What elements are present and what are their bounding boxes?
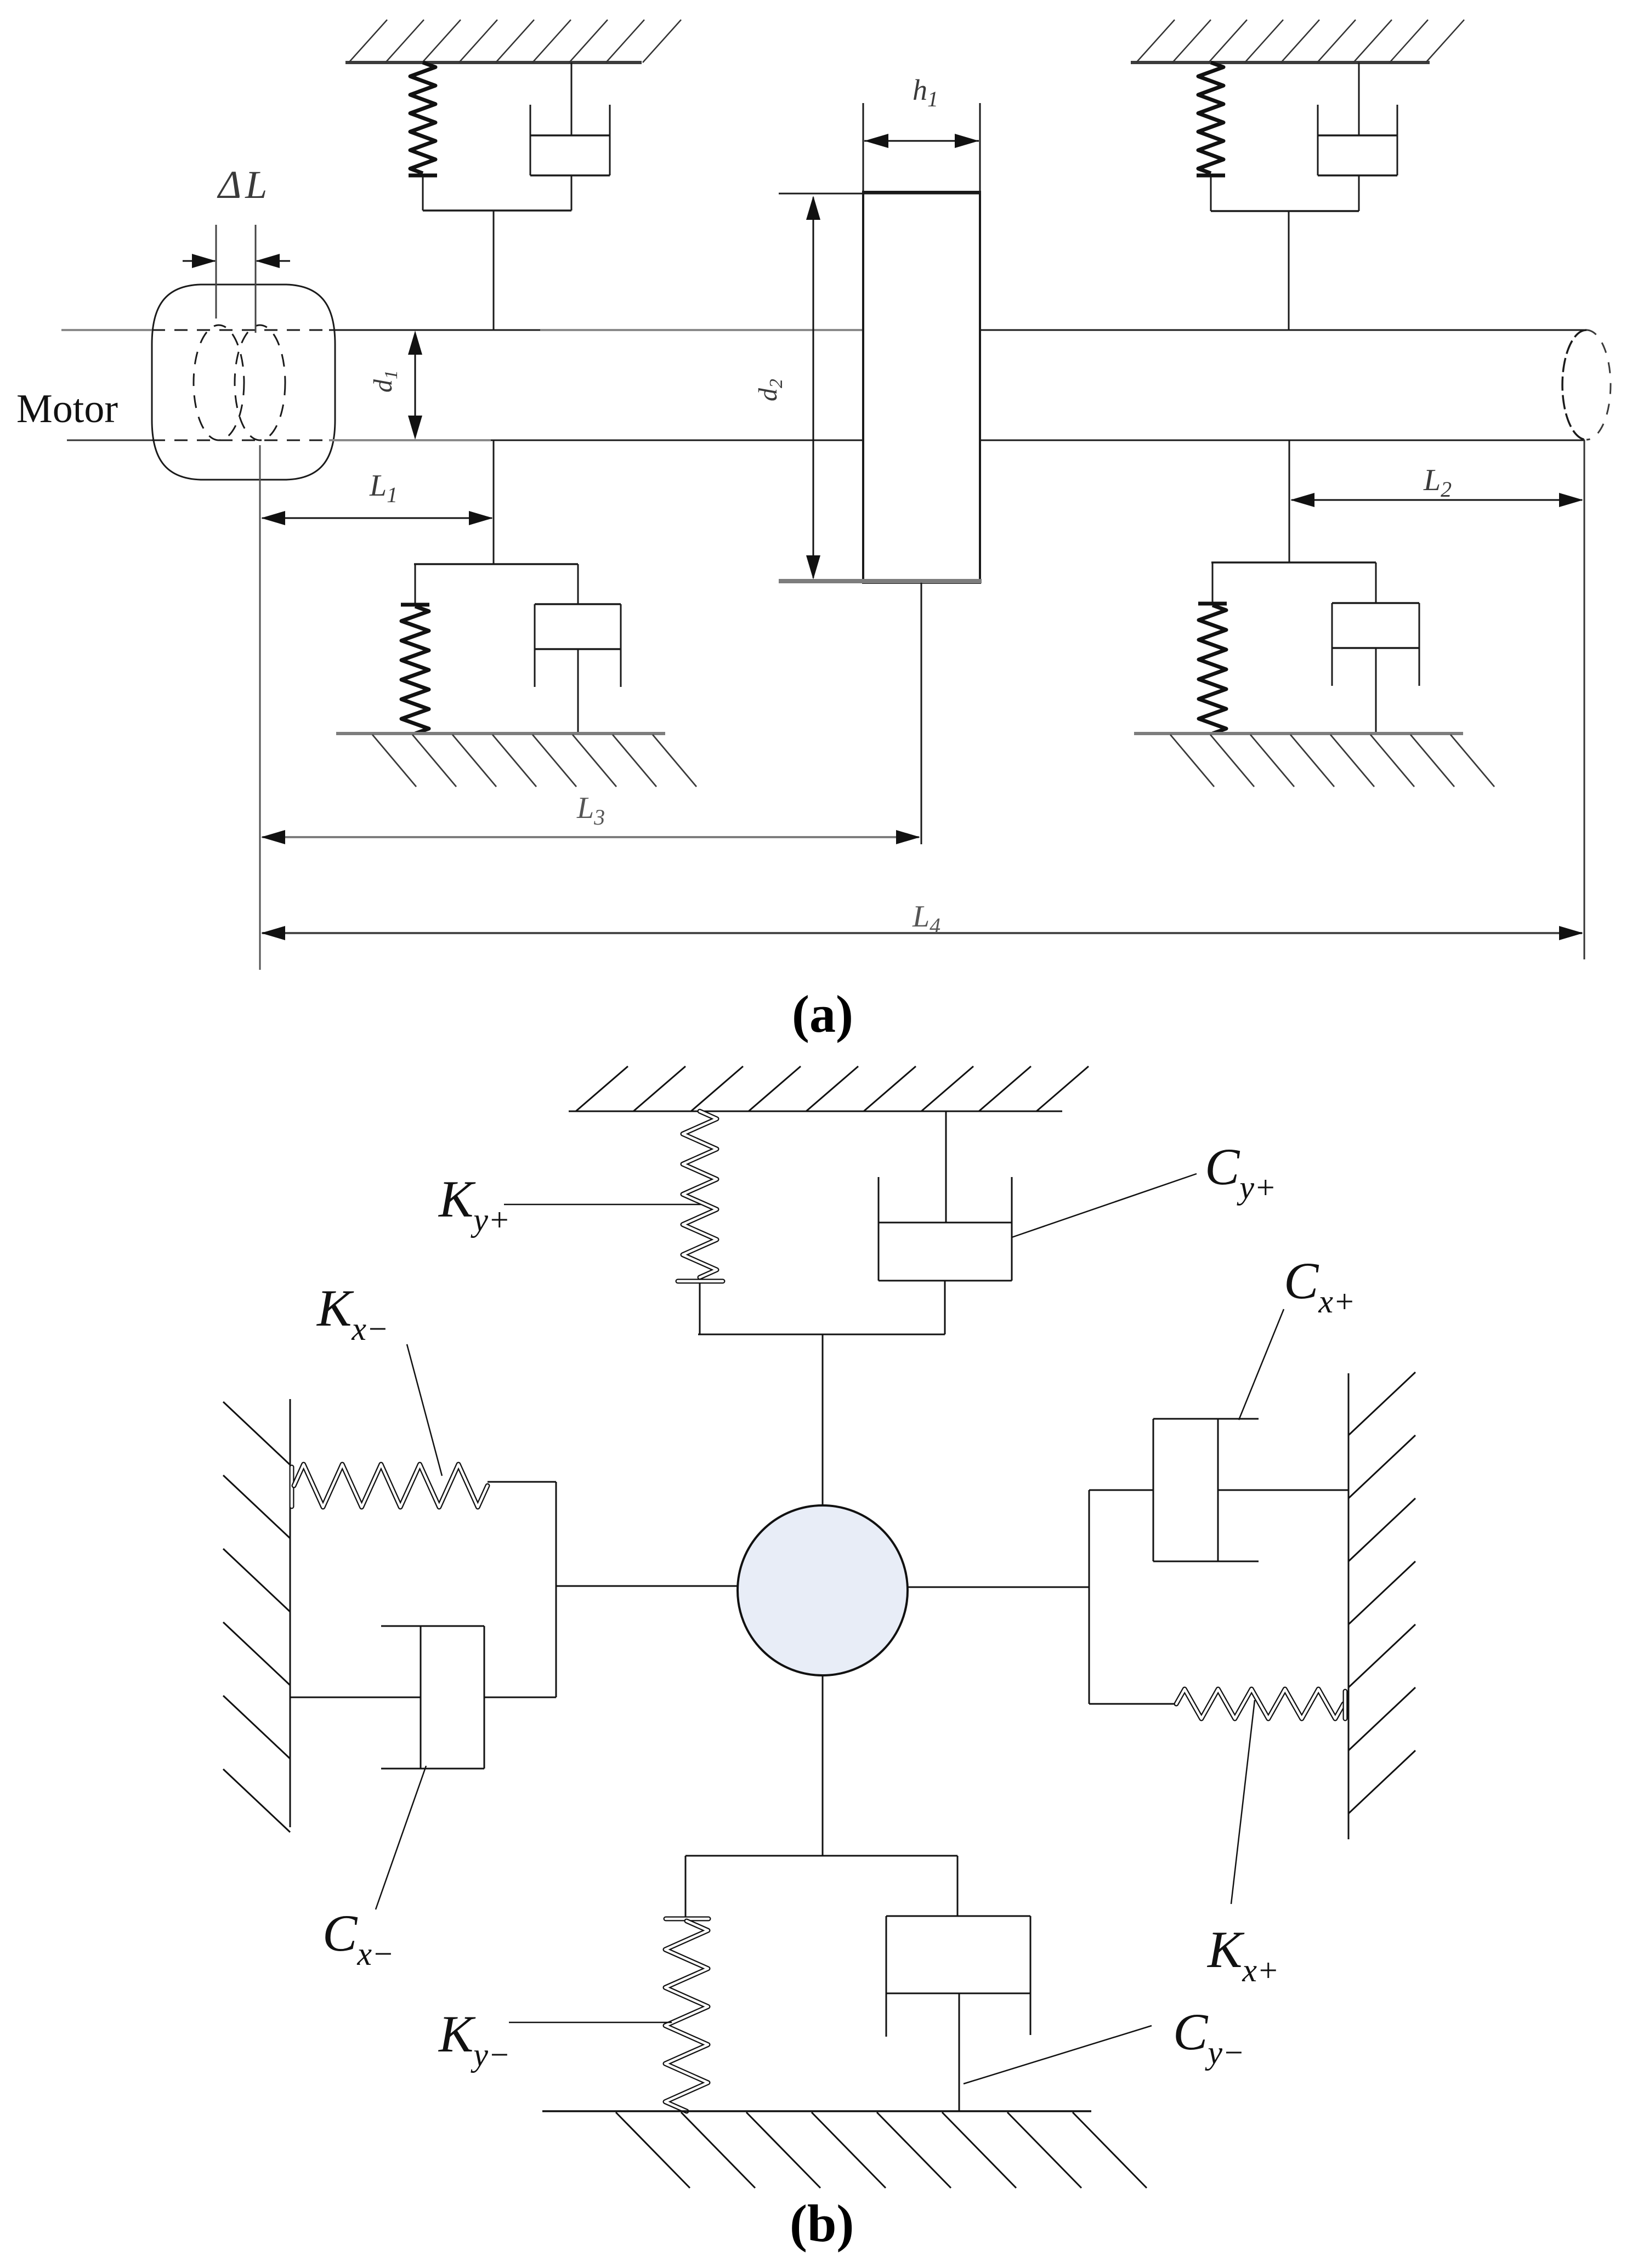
dimension L2 arrow xyxy=(1291,499,1582,501)
bearing 1 bracket and link to shaft xyxy=(423,209,571,212)
svg-text:(a): (a) xyxy=(792,985,853,1043)
link frame to spring Kx+ xyxy=(1089,1703,1176,1705)
motor body xyxy=(152,285,335,480)
hatched ceiling (b) xyxy=(569,1066,1089,1111)
dimension d2 arrow xyxy=(813,197,814,578)
link bracket to mass xyxy=(822,1334,824,1507)
dimension h1 extension lines xyxy=(863,103,864,192)
hatched ceiling support (left bearing) xyxy=(345,20,681,62)
spring Ky+ end cap xyxy=(678,1279,723,1284)
svg-text:(b): (b) xyxy=(790,2194,854,2253)
hatched wall (left) xyxy=(223,1399,290,1832)
spring Kx+ wall cap xyxy=(1343,1691,1348,1719)
dimension d1 arrow xyxy=(415,333,416,437)
disk (rotor) xyxy=(863,192,980,583)
link bracket to spring Ky- xyxy=(685,1856,687,1917)
damper Cy- xyxy=(957,1856,959,1916)
damper Cy+ xyxy=(945,1111,947,1223)
link frame to mass (left) xyxy=(556,1585,738,1587)
dimension L3 arrow xyxy=(262,836,919,838)
top bracket (b) xyxy=(698,1334,945,1335)
shaft lower edge xyxy=(67,440,160,441)
shaft end (ellipse) xyxy=(1562,330,1586,440)
svg-text:Motor: Motor xyxy=(16,386,118,431)
spring Kx+ xyxy=(1176,1689,1344,1719)
L2 extension line xyxy=(1584,440,1585,959)
spring K (lower bearing 1) xyxy=(415,564,416,604)
leader Cy- xyxy=(964,2026,1152,2084)
link mass to bottom bracket xyxy=(822,1675,824,1856)
dimension L1 arrow xyxy=(262,518,492,519)
coupling disc 1 (dashed ellipse) xyxy=(194,325,244,440)
spring Ky- xyxy=(665,1921,708,2111)
frame line (right assembly) xyxy=(1089,1490,1090,1704)
leader Cx- xyxy=(376,1766,426,1909)
hatched ground (bearing 1) xyxy=(336,734,696,787)
dimension d2 extension lines xyxy=(779,193,980,195)
shaft upper edge xyxy=(61,329,152,331)
dimension Delta-L arrows xyxy=(183,260,215,262)
dimension L4 arrow xyxy=(262,932,1582,934)
spring K (upper bearing 2) xyxy=(1198,62,1223,173)
hatched wall (right) xyxy=(1348,1372,1415,1839)
bearing 2 lower link xyxy=(1289,440,1290,562)
link frame to mass (right) xyxy=(908,1587,1089,1588)
spring K (upper bearing 1) xyxy=(410,62,435,173)
bearing 2 bracket and link to shaft xyxy=(1211,210,1359,212)
leader Kx+ xyxy=(1231,1700,1255,1904)
spring Ky+ xyxy=(683,1111,717,1277)
damper C (upper bearing 2) xyxy=(1358,62,1360,135)
disk centre extension line xyxy=(921,583,922,844)
spring K (lower bearing 2) xyxy=(1212,562,1214,602)
damper C (lower bearing 1) xyxy=(577,564,579,604)
leader Ky+ xyxy=(504,1204,701,1206)
bearing 1 lower link xyxy=(493,440,495,564)
hatched ground (bearing 2) xyxy=(1134,734,1494,787)
hatched ceiling support (right bearing) xyxy=(1131,20,1464,62)
bottom bracket (b) xyxy=(685,1855,957,1857)
leader Kx- xyxy=(407,1344,442,1476)
leader Ky- xyxy=(509,2022,672,2023)
spring Kx- wall cap xyxy=(290,1467,294,1507)
mass (central disk node) xyxy=(738,1505,908,1675)
bearing 1 lower bracket xyxy=(414,563,578,565)
dimension Delta-L extension lines xyxy=(216,225,217,319)
damper C (lower bearing 2) xyxy=(1375,562,1377,603)
frame line (left assembly) xyxy=(556,1482,557,1697)
coupling disc 2 (dashed ellipse) xyxy=(235,325,285,440)
spring Kx- xyxy=(294,1464,488,1507)
dimension h1 arrow xyxy=(864,140,979,142)
damper Cx+ xyxy=(1218,1490,1348,1491)
damper C (upper bearing 1) xyxy=(571,62,573,135)
bearing 2 lower bracket xyxy=(1211,561,1376,564)
L1 extension line xyxy=(259,445,261,970)
link spring Ky+ to bracket xyxy=(699,1283,701,1334)
leader Cy+ xyxy=(1012,1174,1197,1237)
hatched ground (b) xyxy=(542,2111,1147,2188)
link spring Kx- to frame xyxy=(488,1481,556,1483)
damper Cx- xyxy=(290,1697,421,1698)
spring Ky- top cap xyxy=(666,1917,709,1922)
leader Cx+ xyxy=(1239,1309,1284,1420)
